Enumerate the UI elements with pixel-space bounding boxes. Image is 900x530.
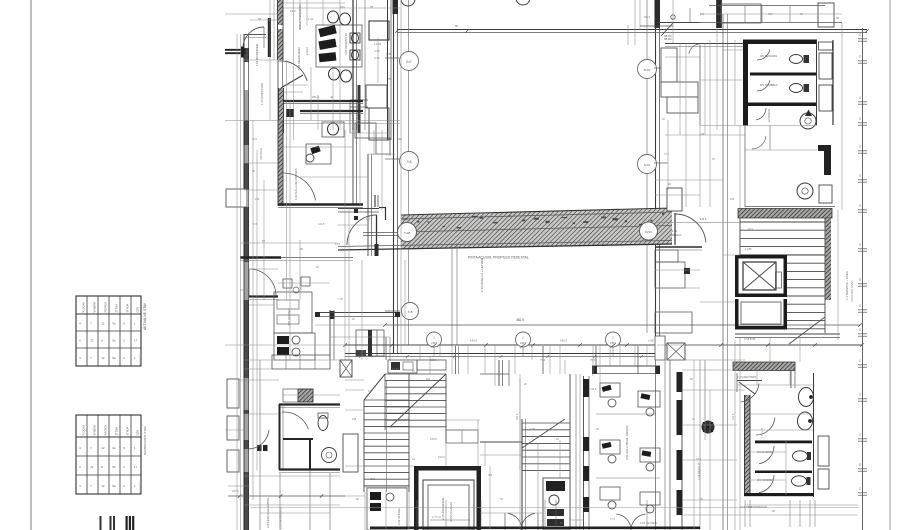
svg-text:150: 150 bbox=[255, 198, 260, 201]
patio wall right bbox=[655, 0, 661, 345]
exterior wall left bbox=[244, 34, 250, 530]
band left door zone bbox=[338, 207, 401, 245]
svg-text:248: 248 bbox=[700, 133, 705, 136]
svg-text:1.80x1.20: 1.80x1.20 bbox=[762, 427, 764, 438]
svg-text:50: 50 bbox=[455, 24, 459, 28]
interior wall hatched x281 bbox=[278, 120, 283, 206]
bottom light guide bbox=[250, 507, 858, 509]
svg-text:17: 17 bbox=[134, 465, 138, 469]
toilet WC1 bbox=[318, 413, 328, 431]
svg-text:1.05 SECRETARIA: 1.05 SECRETARIA bbox=[297, 47, 301, 70]
wall stub above band bbox=[375, 195, 378, 207]
door arc toilet bottom entry bbox=[737, 373, 759, 402]
svg-text:12: 12 bbox=[101, 446, 105, 450]
wall y335 right bbox=[735, 334, 840, 338]
wall y112 horizontal bbox=[286, 109, 363, 117]
svg-text:2.01 SALA TRAB. GRUPO: 2.01 SALA TRAB. GRUPO bbox=[625, 425, 629, 460]
wall y257 dark bbox=[240, 258, 353, 261]
door D2 arc bbox=[279, 61, 308, 88]
svg-text:23.0: 23.0 bbox=[290, 9, 296, 13]
svg-text:12.5: 12.5 bbox=[252, 138, 257, 141]
svg-text:PINTA ACUSOL PROPILEO PEDESTAL: PINTA ACUSOL PROPILEO PEDESTAL bbox=[468, 256, 529, 260]
tick at circle rows bbox=[385, 52, 668, 163]
kitchen cabinets bbox=[272, 355, 330, 369]
svg-text:2.9m2: 2.9m2 bbox=[305, 47, 309, 55]
basin big 1 bbox=[800, 113, 816, 129]
double door arcs bottom bbox=[505, 513, 538, 530]
svg-text:3a: 3a bbox=[112, 446, 116, 450]
tiny labels top-left bbox=[258, 5, 381, 160]
svg-text:25.5: 25.5 bbox=[748, 228, 753, 231]
svg-text:77.2: 77.2 bbox=[610, 518, 615, 521]
svg-text:1.77 m2: 1.77 m2 bbox=[432, 516, 442, 519]
cabinets right top bbox=[819, 42, 833, 111]
svg-text:3.28: 3.28 bbox=[374, 49, 380, 53]
corridor wall x657 lower bbox=[656, 336, 666, 530]
corridor verticals x723 bbox=[723, 14, 728, 530]
stepped outline mid-left of hall bbox=[350, 85, 389, 140]
grid line column B bbox=[408, 0, 410, 345]
svg-text:3a: 3a bbox=[112, 322, 116, 326]
stall doors top bbox=[756, 49, 770, 120]
top dimension line bbox=[395, 24, 869, 38]
svg-text:12: 12 bbox=[101, 356, 105, 360]
svg-text:+.95: +.95 bbox=[648, 339, 654, 343]
bath wall bottom bbox=[279, 470, 340, 473]
svg-text:VYMERA: VYMERA bbox=[93, 425, 96, 436]
svg-text:2.03 OFICINA: 2.03 OFICINA bbox=[397, 508, 401, 525]
bottom heavy line bbox=[370, 526, 700, 529]
stair dim labels bbox=[392, 367, 445, 459]
toilet block walls top bbox=[743, 40, 817, 126]
wall x354 top bbox=[353, 0, 365, 133]
svg-text:14.85: 14.85 bbox=[745, 247, 752, 251]
misc bottom verticals bbox=[417, 500, 815, 527]
svg-text:ANTEBANO: ANTEBANO bbox=[768, 109, 771, 122]
hall bottom dim line with column circles bbox=[343, 332, 864, 348]
label 142_5 mid bbox=[470, 339, 654, 343]
door D4b arc into band bbox=[347, 215, 377, 245]
vert dim col x520 bottom bbox=[516, 378, 520, 470]
svg-text:7x38: 7x38 bbox=[404, 231, 411, 235]
main staircase flights bbox=[364, 374, 446, 492]
stair labels right bbox=[745, 247, 752, 251]
svg-text:146.5: 146.5 bbox=[700, 218, 707, 221]
vert dim col x700 mid bbox=[704, 360, 706, 420]
svg-text:141.5: 141.5 bbox=[590, 388, 597, 391]
svg-text:7x5: 7x5 bbox=[406, 160, 411, 164]
wall x386-400 lower bbox=[386, 337, 390, 360]
svg-text:MONTACARGAS: MONTACARGAS bbox=[449, 502, 453, 522]
svg-text:1.16: 1.16 bbox=[672, 230, 677, 233]
basin big 2 bbox=[797, 183, 813, 199]
svg-text:6x33: 6x33 bbox=[644, 68, 651, 72]
wall x369 bbox=[368, 154, 379, 256]
room walls x500 bbox=[480, 360, 509, 386]
plant blob bbox=[702, 421, 714, 433]
wall post x269 bbox=[268, 18, 271, 57]
office dividers bbox=[596, 414, 660, 478]
grid circle 6x34 bbox=[638, 155, 657, 174]
office desks bottom right bbox=[600, 383, 660, 513]
svg-text:VENTANA: VENTANA bbox=[259, 148, 263, 160]
svg-text:7x8: 7x8 bbox=[408, 310, 413, 314]
band crossing lines bbox=[452, 243, 457, 345]
svg-text:5b: 5b bbox=[112, 339, 116, 343]
svg-text:4.05 DESPACHO: 4.05 DESPACHO bbox=[344, 32, 348, 55]
svg-text:STROP: STROP bbox=[126, 304, 129, 313]
window w3 bbox=[227, 416, 239, 440]
white rect right mid bbox=[819, 185, 832, 203]
svg-text:122.5: 122.5 bbox=[318, 222, 325, 226]
partition stubs under hall bbox=[456, 346, 639, 374]
window w4 bbox=[227, 450, 239, 472]
door D6 bath bbox=[282, 412, 309, 429]
hall bottom wall bbox=[345, 354, 657, 357]
svg-text:77.2: 77.2 bbox=[664, 153, 669, 156]
svg-text:2.04 ESCALERA PPAL: 2.04 ESCALERA PPAL bbox=[266, 497, 270, 528]
window w2 bbox=[227, 379, 239, 408]
stove hatched box bbox=[283, 389, 313, 402]
svg-text:STROP: STROP bbox=[126, 427, 129, 436]
svg-text:2.14 PASILLO: 2.14 PASILLO bbox=[697, 463, 701, 480]
construction verticals bbox=[237, 0, 842, 530]
rotated note right bbox=[845, 270, 854, 302]
svg-text:COTA SUP. NIVEL: COTA SUP. NIVEL bbox=[850, 280, 854, 302]
small tables bbox=[283, 277, 310, 293]
wall y442 bbox=[480, 441, 522, 443]
white rects col bottom bbox=[655, 336, 665, 360]
corridor vertical x700 bbox=[699, 45, 701, 530]
grid circle 7x8 bbox=[385, 303, 419, 320]
svg-text:PLOCHA: PLOCHA bbox=[82, 302, 85, 313]
wall cluster left of dim bbox=[356, 330, 384, 356]
wall y102 horizontal bbox=[283, 101, 363, 104]
svg-text:157.5: 157.5 bbox=[232, 489, 239, 493]
hall wall inner pair top bbox=[388, 0, 392, 140]
svg-text:13.06: 13.06 bbox=[374, 42, 381, 46]
svg-text:95: 95 bbox=[370, 5, 374, 9]
svg-text:345.5: 345.5 bbox=[516, 413, 519, 420]
svg-text:1.02: 1.02 bbox=[308, 17, 314, 21]
svg-text:PASILLO: PASILLO bbox=[672, 234, 682, 237]
svg-text:1.03 SALA REUNIONES: 1.03 SALA REUNIONES bbox=[294, 168, 298, 200]
svg-text:6x39: 6x39 bbox=[645, 230, 652, 234]
sala label bbox=[294, 168, 298, 200]
svg-text:303: 303 bbox=[398, 138, 403, 141]
svg-text:B.POSCH: B.POSCH bbox=[139, 482, 143, 494]
vert dim text x740 bbox=[697, 413, 735, 480]
basin circle bbox=[322, 448, 337, 463]
svg-text:9.15: 9.15 bbox=[374, 56, 380, 60]
legend table 2 side caption bbox=[139, 426, 148, 494]
svg-text:12: 12 bbox=[101, 322, 105, 326]
construction horizontals bbox=[225, 3, 858, 520]
dim line y496 bbox=[228, 494, 345, 498]
svg-text:7.35: 7.35 bbox=[338, 298, 343, 301]
labels above cluster A bbox=[305, 47, 309, 55]
office caption rotated bbox=[625, 425, 629, 460]
toilet labels top bbox=[760, 55, 778, 122]
sink counter bbox=[543, 478, 570, 530]
pier top-mid bbox=[369, 21, 389, 40]
office wall x586 bbox=[583, 376, 589, 530]
svg-text:1.1 SERVICIO + ASEO: 1.1 SERVICIO + ASEO bbox=[845, 270, 849, 300]
svg-text:VYMERA: VYMERA bbox=[93, 302, 96, 313]
building edge right of toilets bbox=[832, 40, 834, 125]
wall top cap bbox=[244, 35, 266, 38]
svg-text:141.5: 141.5 bbox=[366, 218, 373, 221]
stall doors bottom bbox=[756, 418, 775, 493]
chair below cluster A bbox=[322, 122, 344, 137]
svg-text:STENA: STENA bbox=[115, 427, 118, 436]
desk block lower-left bbox=[274, 292, 312, 333]
grid circle 7x5 bbox=[400, 152, 419, 171]
scale bar 3 bbox=[126, 516, 135, 530]
svg-text:2.07 OFICINA: 2.07 OFICINA bbox=[287, 309, 291, 326]
grid circle 6x39 bbox=[640, 222, 658, 240]
svg-text:POVRCH: POVRCH bbox=[104, 302, 107, 313]
band caption bbox=[468, 256, 529, 260]
door D7 from left wall bbox=[249, 430, 269, 449]
long verticals bottom-left bbox=[260, 360, 330, 530]
svg-text:1.04 SECRETARIA: 1.04 SECRETARIA bbox=[255, 44, 259, 66]
wall stub upper-left bbox=[225, 47, 246, 58]
shaft room below elevator bbox=[735, 299, 787, 330]
wall x280 mid bbox=[278, 60, 283, 120]
corridor lines bottom center bbox=[576, 374, 580, 530]
dimension vertical x862 bbox=[858, 28, 867, 530]
toilet block walls bottom bbox=[737, 370, 814, 497]
grid stubs bottom circles bbox=[434, 332, 613, 356]
small circle sym bbox=[671, 5, 790, 23]
elevator mid right bbox=[735, 255, 787, 297]
bath wall top bbox=[279, 405, 340, 408]
corridor small rooms mid-right bbox=[655, 250, 692, 333]
tiny dims top right bbox=[700, 12, 839, 20]
svg-text:77.2: 77.2 bbox=[540, 358, 546, 362]
wall x355 vertical bbox=[353, 123, 357, 204]
interior wall hatched x280 top bbox=[278, 0, 284, 60]
bottom ticks small bbox=[430, 516, 470, 520]
stair landing notch bbox=[446, 430, 478, 443]
door D3 arc sala bbox=[283, 173, 316, 206]
svg-text:184: 184 bbox=[340, 5, 345, 9]
scale bar 2 bbox=[110, 516, 116, 530]
svg-text:50: 50 bbox=[258, 17, 262, 21]
wall y314 bbox=[315, 312, 400, 317]
stepped boxes right bbox=[355, 123, 390, 154]
hatched wall band right bbox=[738, 209, 832, 219]
grid circle top partial 2 bbox=[516, 0, 530, 5]
office top wall bbox=[592, 366, 660, 374]
svg-text:303: 303 bbox=[488, 474, 493, 477]
desk with monitor bbox=[306, 144, 331, 164]
svg-text:17: 17 bbox=[134, 339, 138, 343]
page left margin line bbox=[30, 0, 32, 530]
wall y297 bbox=[249, 297, 278, 300]
svg-text:3a: 3a bbox=[112, 484, 116, 488]
svg-text:17x8.8=30: 17x8.8=30 bbox=[744, 338, 756, 341]
svg-text:1.10: 1.10 bbox=[335, 242, 341, 246]
patio wall left bbox=[393, 0, 399, 353]
bath partition bbox=[283, 438, 313, 470]
pier hall right 1 bbox=[661, 48, 677, 82]
svg-text:2.18 ASEO PERSONAL: 2.18 ASEO PERSONAL bbox=[740, 505, 768, 509]
svg-text:141.5: 141.5 bbox=[732, 413, 735, 420]
corridor wall x679 segmented bbox=[670, 360, 683, 530]
svg-text:159.2: 159.2 bbox=[430, 437, 437, 441]
window w1 bbox=[226, 189, 247, 207]
svg-text:STENA: STENA bbox=[115, 304, 118, 313]
svg-text:248: 248 bbox=[352, 418, 357, 421]
scale bar 1 bbox=[100, 516, 102, 530]
svg-text:5b: 5b bbox=[112, 465, 116, 469]
rotated captions bottom-left bbox=[232, 489, 283, 529]
top right room boxes bbox=[700, 3, 842, 27]
pier hall right 3 bbox=[667, 97, 698, 113]
svg-text:1.04 DIRECCION: 1.04 DIRECCION bbox=[260, 83, 264, 105]
toilet labels bottom bbox=[737, 376, 774, 482]
stair flight C bbox=[522, 374, 570, 478]
svg-text:41.57: 41.57 bbox=[392, 367, 399, 371]
svg-text:65.84: 65.84 bbox=[664, 37, 672, 41]
door D1 arc bbox=[243, 27, 264, 48]
svg-text:12: 12 bbox=[101, 484, 105, 488]
desk cluster B bbox=[274, 333, 315, 360]
wall x332 bbox=[330, 310, 335, 360]
svg-text:NO.9: NO.9 bbox=[644, 15, 651, 19]
dim line 482.5 bbox=[383, 318, 862, 327]
pier hall right 2 bbox=[661, 82, 698, 97]
wall x719 top dark bbox=[717, 0, 722, 28]
white niche rect bbox=[343, 434, 358, 472]
dark L wall right bbox=[818, 145, 831, 175]
svg-text:OZN: OZN bbox=[137, 430, 140, 435]
office desks cluster A bbox=[316, 11, 362, 82]
legend table 1 side caption bbox=[139, 302, 148, 366]
svg-text:482.5: 482.5 bbox=[516, 318, 524, 322]
bath wall left bbox=[280, 404, 284, 470]
vertical caption mid-hall bbox=[480, 257, 484, 292]
hall mid dim label bbox=[0, 0, 1, 1]
legend table 2 bbox=[76, 415, 141, 494]
svg-text:WC HOMBRES: WC HOMBRES bbox=[757, 479, 774, 482]
desk cluster C bbox=[367, 488, 407, 530]
xbox pier left bbox=[340, 360, 352, 377]
svg-text:WC SENORAS: WC SENORAS bbox=[760, 55, 777, 58]
wall x522 bbox=[522, 419, 526, 530]
svg-text:150: 150 bbox=[748, 506, 753, 509]
svg-text:103.2: 103.2 bbox=[438, 455, 445, 459]
svg-text:6x2: 6x2 bbox=[406, 60, 411, 64]
stairs right block bbox=[740, 218, 831, 344]
svg-text:12.5: 12.5 bbox=[696, 458, 701, 461]
svg-text:142.5: 142.5 bbox=[470, 339, 477, 343]
svg-text:160: 160 bbox=[426, 378, 431, 381]
svg-text:2.15 ASCENSOR: 2.15 ASCENSOR bbox=[441, 498, 445, 521]
door D5 arc lower-left bbox=[249, 269, 276, 296]
svg-text:1.15 m2 SSHH: 1.15 m2 SSHH bbox=[640, 521, 657, 525]
svg-text:7.35: 7.35 bbox=[386, 52, 392, 56]
xbox pier mid bbox=[667, 343, 685, 360]
room top wall A bbox=[640, 23, 700, 27]
svg-text:160: 160 bbox=[730, 198, 735, 201]
door arcs office bottom bbox=[616, 514, 645, 530]
top rooms small bbox=[388, 360, 446, 373]
section arrow triangle bbox=[805, 110, 812, 117]
svg-text:POVRCH: POVRCH bbox=[104, 425, 107, 436]
cabinet right bottom bbox=[818, 436, 829, 489]
svg-text:WC MUJERES: WC MUJERES bbox=[757, 451, 773, 454]
hatched band bottom right bbox=[733, 362, 795, 371]
svg-text:NAVRHOVANY STAV: NAVRHOVANY STAV bbox=[143, 426, 147, 455]
room lines below toilets bbox=[745, 125, 835, 207]
elevator shaft bottom bbox=[414, 466, 481, 530]
wc fixtures top bbox=[790, 55, 810, 93]
grid circle 6x33 bbox=[638, 60, 657, 79]
label 65_84 bbox=[644, 15, 672, 41]
grid line column C bbox=[646, 0, 648, 333]
wall y205 thick bbox=[278, 205, 363, 208]
svg-text:2.13 PASILLO + LETRER: 2.13 PASILLO + LETRER bbox=[480, 257, 484, 292]
tiny labels mid-left bbox=[252, 222, 341, 290]
dark rotated label 1_04 bbox=[255, 44, 259, 66]
wc fixtures bottom bbox=[792, 451, 812, 486]
chamfer diagonal bbox=[661, 23, 673, 36]
svg-text:PLOCHA: PLOCHA bbox=[82, 425, 85, 436]
svg-text:2.05 VESTIBULO: 2.05 VESTIBULO bbox=[279, 506, 283, 529]
toilet bottom caption bbox=[640, 505, 768, 525]
svg-text:AKTUALNE STAV: AKTUALNE STAV bbox=[143, 302, 147, 330]
svg-text:B.POSCH: B.POSCH bbox=[139, 354, 143, 366]
grid circle 6x2 bbox=[400, 52, 419, 71]
svg-text:3a: 3a bbox=[112, 356, 116, 360]
svg-text:281.5: 281.5 bbox=[312, 95, 319, 99]
grid circle 7x38 on band bbox=[398, 223, 417, 242]
svg-text:7.35: 7.35 bbox=[530, 428, 535, 431]
svg-text:WC HOMBRES: WC HOMBRES bbox=[760, 84, 778, 87]
twin dark squares bbox=[257, 445, 268, 451]
svg-text:22: 22 bbox=[90, 465, 94, 469]
corridor top wall right bbox=[665, 44, 743, 55]
wall x280 hatched lower bbox=[279, 88, 284, 133]
label pasillo bbox=[260, 4, 302, 105]
door D8 corridor end bbox=[655, 213, 740, 250]
dimension number speckle bbox=[252, 78, 775, 525]
walkway hatched band bbox=[338, 208, 672, 250]
svg-text:25.5: 25.5 bbox=[370, 478, 375, 481]
corridor end pier bbox=[667, 188, 682, 211]
svg-text:OZN: OZN bbox=[137, 307, 140, 312]
svg-text:22: 22 bbox=[90, 339, 94, 343]
svg-text:6x34: 6x34 bbox=[644, 163, 651, 167]
legend table 1 bbox=[76, 296, 141, 366]
svg-text:142.5: 142.5 bbox=[560, 339, 567, 343]
grid circle top partial bbox=[401, 0, 415, 6]
page border vertical x890 bbox=[889, 0, 891, 530]
basins bottom bbox=[798, 388, 814, 431]
dim ticks under hall bbox=[359, 355, 643, 362]
